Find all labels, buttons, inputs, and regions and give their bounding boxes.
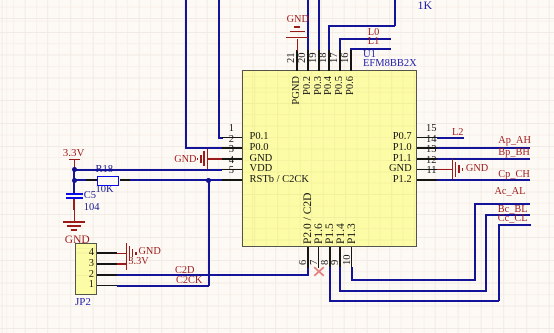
ground dot bar [197, 158, 199, 160]
wire pin 1 P0.1 vertical riser [218, 0, 220, 138]
power port 3.3V stem [74, 160, 76, 170]
wire pin 1 horizontal stub link [218, 137, 223, 139]
pin number 12 [410, 156, 437, 167]
ground bar small [132, 249, 133, 257]
pin number 20 [298, 53, 309, 64]
ground bar small [458, 165, 459, 173]
net label Bc_BL [498, 205, 528, 215]
IC left pin 4 stub [222, 169, 243, 171]
pin number 8 [321, 260, 332, 265]
wire top run Cc_CL [498, 224, 531, 226]
pin number 19 [309, 53, 320, 64]
capacitor C5 stem upper [73, 181, 75, 193]
ground bar middle [290, 31, 305, 33]
ground wire to pin 3 [208, 158, 222, 160]
resistor 1K label (top right) [418, 0, 433, 11]
resistor R18 left lead [86, 179, 97, 181]
ground bar small [200, 155, 201, 163]
pin name PGND (rotated) [292, 76, 303, 105]
wire pin 10 vertical drop [351, 267, 353, 281]
net label Cp_CH [498, 170, 529, 180]
IC bottom pin 6 stub [307, 247, 309, 268]
ground dot bar [462, 168, 464, 170]
pin name P1.0 [390, 143, 412, 154]
ground symbol below C5: stem [74, 210, 76, 221]
ground wire at pin 12 [437, 169, 453, 171]
wire P0.3 top vertical [318, 0, 320, 51]
pin name GND [250, 154, 273, 165]
IC top pin 19 stub [318, 50, 320, 71]
IC top pin 21 stub [296, 50, 298, 71]
wire P0.2 top vertical [307, 0, 309, 51]
pin number 2 [205, 135, 234, 146]
IC right pin 13 stub [417, 158, 438, 160]
ground text GND [466, 164, 488, 174]
pin number 4 [205, 156, 234, 167]
wire net L1 horizontal [350, 48, 391, 50]
capacitor C5 top plate [66, 193, 82, 195]
pin number 11 [410, 166, 437, 177]
wire C2CK horizontal to JP2 pin 1 [117, 285, 209, 287]
wire C2D horizontal JP2 pin 2 to IC pin 6 [117, 274, 309, 276]
capacitor C5 bottom plate [66, 197, 82, 199]
JP2 pin 3 power wire [117, 263, 127, 265]
pin name P0.1 [250, 132, 269, 143]
wire net L0 horizontal [339, 38, 391, 40]
pin name P1.3 (rotated) [347, 224, 359, 245]
pin name P0.4 (rotated) [324, 76, 335, 95]
ground bar wide [63, 221, 85, 223]
wire vertical 3.3V node down to RST row [73, 169, 75, 181]
connector JP2 designator [75, 297, 91, 308]
JP2 pin 4 stub [97, 252, 117, 254]
connector JP2 body [75, 243, 97, 296]
wire riser Bc_BL [485, 214, 487, 292]
ground symbol JP2 pin4: bar tall [126, 243, 127, 263]
ground symbol at IC pin 3: text GND [174, 155, 196, 165]
wire RST row left of R18 [73, 179, 88, 181]
IC bottom pin 9 stub [339, 247, 341, 268]
ground bar small [71, 229, 77, 231]
pin number 16 [341, 53, 352, 64]
ground bar middle [203, 151, 204, 166]
wire top run Ac_AL [474, 203, 530, 205]
IC right pin 14 stub [417, 147, 438, 149]
wire P0.4 to 1K resistor: vertical from pin 18 [328, 25, 330, 52]
resistor R18 label [96, 165, 114, 176]
net label Ap_AH [498, 136, 531, 146]
IC left pin 1 stub [222, 137, 243, 139]
ground text GND [287, 15, 309, 25]
pin name P1.1 [390, 154, 412, 165]
U1 part number EFM8BB2X [363, 59, 417, 70]
pin name P1.4 (rotated) [336, 224, 348, 245]
ground symbol pin 12: bar tall [452, 159, 453, 179]
JP2 pin number 1 [70, 280, 94, 291]
ground text GND [139, 247, 161, 257]
IC right pin 15 stub [417, 137, 438, 139]
wire net L1 vertical from pin 16 [350, 48, 352, 51]
pin name RSTb / C2CK [250, 175, 310, 186]
resistor R18 right lead [120, 179, 130, 181]
JP2 pin number 4 [70, 248, 94, 259]
pin number 5 [205, 166, 234, 177]
op-amp U1 body (MCU EFM8BB2X rectangle) [242, 70, 418, 247]
U1 designator [363, 50, 376, 61]
IC bottom pin 8 stub [329, 247, 331, 268]
pin number 14 [410, 135, 437, 146]
pin number 13 [410, 145, 437, 156]
pin name P2.0 / C2D (rotated) [303, 193, 315, 244]
wire net Cp_CH from pin 11 [437, 179, 530, 181]
pin name P0.6 (rotated) [346, 76, 357, 95]
JP2 pin 2 stub [97, 274, 117, 276]
IC top pin 16 stub [350, 50, 352, 71]
ground bar middle [455, 162, 456, 177]
ground bar middle [67, 225, 81, 227]
IC left pin 3 stub [222, 158, 243, 160]
JP2 pin 4 ground wire [117, 253, 127, 255]
capacitor C5 label [84, 191, 96, 202]
pin name P0.0 [250, 143, 269, 154]
pin name P1.5 (rotated) [325, 224, 337, 245]
wire pin 6 vertical drop [307, 267, 309, 276]
pin name P1.6 (rotated) [314, 224, 326, 245]
resistor R18 value 10K [96, 185, 114, 196]
power port 3.3V bar [69, 159, 80, 161]
node junction at RST row [72, 178, 77, 183]
ground text GND [65, 235, 90, 247]
net label L1 [368, 37, 379, 47]
node junction at VDD rail [72, 167, 77, 172]
wire net Bp_BH from pin 13 [437, 158, 530, 160]
pin name P0.5 (rotated) [335, 76, 346, 95]
wire bottom run for net Ac_AL [351, 279, 477, 281]
JP2 pin 3 stub [97, 263, 117, 265]
net label C2CK [176, 276, 202, 286]
net label Bp_BH [498, 148, 529, 158]
ground bar middle [129, 246, 130, 261]
pin number 6 [299, 260, 310, 265]
wire VDD rail from 3.3V to pin 4 [73, 169, 222, 171]
capacitor C5 value 104 [84, 203, 100, 214]
IC right pin 11 stub [417, 179, 438, 181]
resistor R18 body [97, 176, 119, 186]
IC bottom pin 7 stub [318, 247, 320, 268]
wire net L2 from pin 15 [437, 137, 464, 139]
pin name P0.7 [390, 132, 412, 143]
net label C2D [175, 266, 194, 276]
JP2 pin number 3 [70, 259, 94, 270]
pin name P0.2 (rotated) [303, 76, 314, 95]
net label L2 [452, 128, 463, 138]
wire pin 9 vertical drop [339, 267, 341, 291]
JP2 pin 1 stub [97, 285, 117, 287]
pin number 3 [205, 145, 234, 156]
IC top pin 20 stub [307, 50, 309, 71]
net label Ac_AL [495, 187, 526, 197]
pin number 9 [331, 260, 342, 265]
pin number 18 [319, 53, 330, 64]
IC top pin 18 stub [328, 50, 330, 71]
ground bar small [294, 26, 300, 28]
pin number 7 [310, 260, 321, 265]
wire bottom run for net Bc_BL [339, 290, 487, 292]
wire riser Ac_AL [474, 203, 476, 281]
ground bar tall [207, 149, 208, 169]
wire pin 2 P0.0 vertical riser [185, 0, 187, 149]
pin number 10 [343, 255, 354, 266]
IC bottom pin 10 stub [351, 247, 353, 268]
power port 3.3V text [63, 148, 85, 159]
pin number 17 [330, 53, 341, 64]
net label Cc_CL [498, 214, 528, 224]
ground bar wide [286, 37, 308, 39]
pin name P0.3 (rotated) [314, 76, 325, 95]
pin number 21 [287, 53, 298, 64]
pin name VDD [250, 164, 273, 175]
wire riser Cc_CL [498, 224, 500, 301]
pin number 15 [410, 124, 437, 135]
pin name P1.2 [390, 175, 412, 186]
power port 3.3V text at JP2 [128, 257, 148, 267]
wire pin 8 vertical drop [329, 267, 331, 302]
wire bottom run for net Cc_CL [329, 300, 499, 302]
wire pin 2 horizontal [185, 147, 222, 149]
wire P0.4 horizontal run [328, 25, 395, 27]
capacitor C5 stem lower [73, 199, 75, 210]
wire P0.4 riser to top edge [394, 0, 396, 26]
wire C2CK vertical from RST junction [208, 180, 210, 286]
net label L0 [368, 28, 379, 38]
IC left pin 2 stub [222, 147, 243, 149]
wire RST row from R18 to pin 5 [130, 179, 223, 181]
IC right pin 12 stub [417, 169, 438, 171]
IC top pin 17 stub [339, 50, 341, 71]
wire net L0 vertical from pin 17 [339, 38, 341, 51]
power port 3.3V bar at JP2 [126, 258, 128, 270]
pin number 1 [205, 124, 234, 135]
JP2 pin number 2 [70, 270, 94, 281]
node junction RST/C2CK [206, 178, 211, 183]
wire net Ap_AH from pin 14 [437, 147, 530, 149]
ground dot bar [135, 252, 137, 254]
no-connect X on pin 7 [313, 266, 325, 277]
pin name GND right [385, 164, 412, 175]
wire top run Bc_BL [485, 214, 530, 216]
ground symbol at pin 21 PGND: stem [297, 39, 299, 51]
IC left pin 5 stub [222, 179, 243, 181]
